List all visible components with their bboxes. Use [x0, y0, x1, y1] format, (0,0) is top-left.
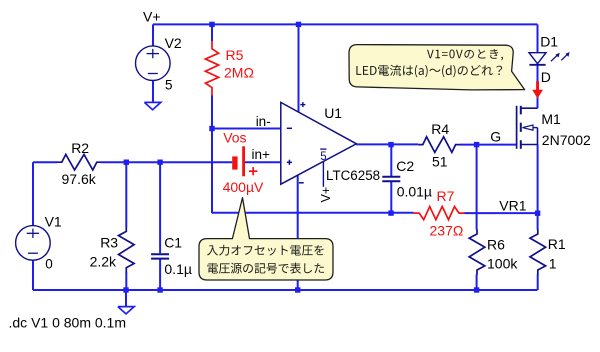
- svg-text:C2: C2: [396, 158, 414, 174]
- svg-text:LTC6258: LTC6258: [326, 168, 380, 183]
- svg-text:5: 5: [320, 151, 326, 163]
- svg-text:2MΩ: 2MΩ: [224, 65, 254, 81]
- svg-text:M1: M1: [541, 111, 561, 127]
- svg-text:R1: R1: [548, 236, 566, 252]
- svg-text:5: 5: [165, 77, 173, 92]
- svg-text:100k: 100k: [487, 256, 518, 272]
- svg-text:Vos: Vos: [223, 129, 246, 145]
- svg-text:R6: R6: [487, 237, 505, 253]
- svg-text:1: 1: [549, 255, 557, 271]
- svg-text:51: 51: [432, 154, 448, 170]
- svg-text:D1: D1: [540, 34, 558, 50]
- svg-text:237Ω: 237Ω: [430, 223, 464, 239]
- svg-text:V+: V+: [319, 187, 333, 203]
- svg-text:V+: V+: [143, 9, 161, 25]
- svg-text:C1: C1: [164, 235, 182, 251]
- svg-text:in+: in+: [252, 147, 271, 162]
- svg-text:in-: in-: [256, 114, 271, 129]
- svg-text:0: 0: [45, 256, 53, 271]
- svg-text:400µV: 400µV: [223, 179, 264, 195]
- svg-text:0.1µ: 0.1µ: [164, 261, 192, 277]
- svg-text:97.6k: 97.6k: [62, 171, 97, 187]
- svg-text:2.2k: 2.2k: [90, 254, 117, 270]
- svg-text:R2: R2: [71, 140, 89, 156]
- svg-text:.dc V1 0 80m 0.1m: .dc V1 0 80m 0.1m: [9, 314, 127, 330]
- svg-text:V1: V1: [45, 214, 62, 230]
- svg-text:R7: R7: [437, 188, 455, 204]
- svg-text:R5: R5: [226, 47, 244, 63]
- svg-text:V2: V2: [165, 35, 182, 51]
- svg-text:VR1: VR1: [499, 198, 526, 214]
- svg-text:D: D: [541, 69, 551, 85]
- svg-text:U1: U1: [324, 105, 342, 121]
- svg-text:G: G: [490, 128, 501, 144]
- svg-text:R3: R3: [100, 234, 118, 250]
- svg-text:2N7002: 2N7002: [542, 132, 591, 148]
- svg-text:0.01µ: 0.01µ: [397, 184, 432, 200]
- svg-text:R4: R4: [431, 121, 449, 137]
